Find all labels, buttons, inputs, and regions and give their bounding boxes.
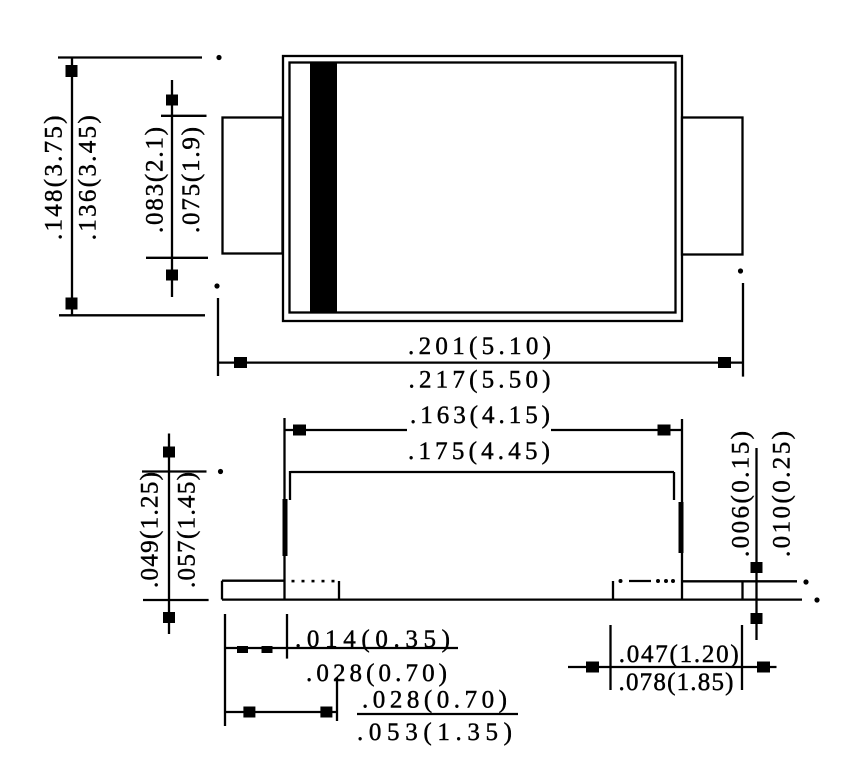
svg-text:.217(5.50): .217(5.50) (409, 367, 551, 394)
svg-text:.148(3.75): .148(3.75) (41, 116, 68, 241)
svg-text:.201(5.10): .201(5.10) (408, 333, 551, 360)
svg-text:.047(1.20): .047(1.20) (619, 641, 739, 668)
svg-text:.028(0.70): .028(0.70) (306, 660, 447, 687)
svg-text:.053(1.35): .053(1.35) (357, 719, 512, 746)
svg-text:.028(0.70): .028(0.70) (362, 687, 507, 714)
svg-text:.010(0.25): .010(0.25) (768, 431, 795, 557)
svg-text:.136(3.45): .136(3.45) (75, 115, 102, 240)
svg-text:.083(2.1): .083(2.1) (142, 127, 169, 233)
svg-text:.049(1.25): .049(1.25) (136, 472, 163, 588)
svg-text:.078(1.85): .078(1.85) (619, 669, 734, 696)
svg-text:.075(1.9): .075(1.9) (178, 127, 205, 233)
svg-text:.163(4.15): .163(4.15) (410, 402, 550, 429)
svg-text:.175(4.45): .175(4.45) (408, 438, 550, 465)
svg-text:.057(1.45): .057(1.45) (173, 472, 200, 588)
svg-text:.006(0.15): .006(0.15) (727, 431, 754, 557)
